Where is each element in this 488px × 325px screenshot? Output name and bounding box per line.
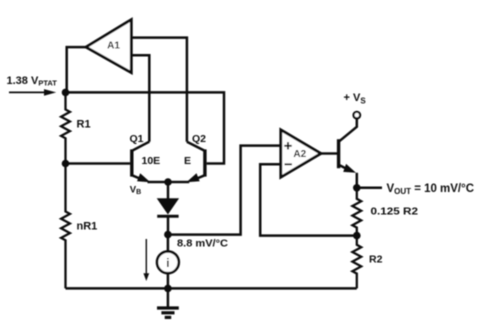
wire A1 output to node A <box>67 47 86 92</box>
node C (common emitters) <box>164 178 172 186</box>
node B (R1 / nR1 / Q1 base junction) <box>62 160 70 168</box>
svg-text:0.125 R2: 0.125 R2 <box>371 206 419 218</box>
wire node A to Q2 base <box>66 92 225 163</box>
node E (R2 feedback junction) <box>353 232 361 240</box>
svg-text:nR1: nR1 <box>77 221 98 233</box>
svg-text:R2: R2 <box>369 254 383 266</box>
node 1.38 VPTAT input arrow <box>9 89 56 96</box>
resistor 0.125 R2 <box>352 188 418 236</box>
wire A1 upper input to Q2 collector <box>131 38 187 142</box>
svg-text:E: E <box>184 155 191 167</box>
svg-text:10E: 10E <box>142 155 161 167</box>
node A (1.38 VPTAT) <box>62 89 70 97</box>
current source I <box>157 235 179 289</box>
resistor nR1 <box>61 164 97 289</box>
wire A2 output to Q3 base <box>321 152 337 155</box>
node D (8.8 mV/degC node) <box>164 231 172 239</box>
resistor R1 <box>61 92 90 163</box>
wire node D to A2 non-inverting input <box>168 146 281 235</box>
wire node G to VOUT label <box>357 187 382 190</box>
wire node B to Q1 base <box>66 162 131 165</box>
node F (ground junction) <box>164 285 172 293</box>
transistor Q2 <box>184 133 206 182</box>
transistor Q3 <box>339 118 357 187</box>
svg-text:8.8 mV/°C: 8.8 mV/°C <box>177 238 228 250</box>
wire bottom bus <box>66 287 357 290</box>
resistor R2 <box>352 236 382 289</box>
wire emitters bus <box>148 181 190 184</box>
wire A1 lower input to Q1 collector <box>131 55 149 141</box>
terminal +VS <box>344 92 367 118</box>
transistor Q1 <box>130 133 161 182</box>
svg-text:i: i <box>166 258 169 270</box>
current direction arrow <box>143 239 149 281</box>
wire A2 inverting input to node E feedback <box>260 164 357 235</box>
diode D1 <box>157 198 179 234</box>
svg-text:R1: R1 <box>77 119 91 131</box>
node G (VOUT) <box>353 184 361 192</box>
ground <box>157 288 179 317</box>
svg-text:A2: A2 <box>293 149 306 160</box>
svg-text:Q2: Q2 <box>192 133 206 145</box>
wire node C to diode <box>167 182 170 199</box>
svg-text:A1: A1 <box>107 40 120 51</box>
op-amp A2 <box>281 130 321 177</box>
svg-text:Q1: Q1 <box>130 133 144 145</box>
op-amp A1 <box>86 20 131 73</box>
